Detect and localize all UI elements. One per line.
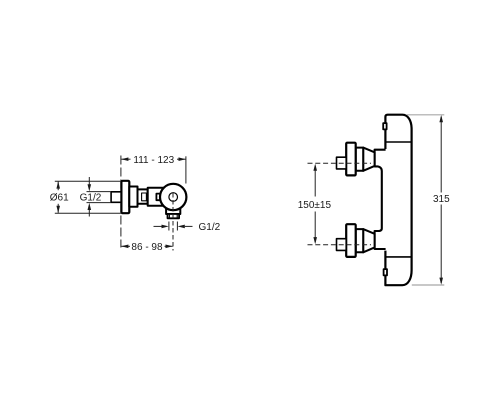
top cap separator line (385, 141, 411, 143)
body left edge and inlet nuts (375, 150, 386, 249)
dim G1/2 extension lines (87, 191, 112, 193)
inlet stub side view (111, 192, 121, 203)
svg-text:G1/2: G1/2 (199, 222, 221, 233)
wall flange (escutcheon) side view (121, 181, 129, 213)
svg-text:111 - 123: 111 - 123 (133, 155, 174, 166)
wall plane dashed line (120, 156, 122, 248)
outlet centerline (172, 193, 174, 251)
bottom inlet block (356, 229, 364, 252)
set screw bump (156, 194, 161, 201)
dim 315 line with arrows (440, 117, 442, 193)
arrow up O61 (56, 181, 60, 188)
svg-text:86 - 98: 86 - 98 (131, 242, 163, 253)
knob circle (160, 184, 186, 210)
bottom cap separator line (385, 256, 411, 258)
outlet collar (166, 209, 180, 214)
svg-text:150±15: 150±15 (298, 200, 332, 211)
notch detail on connector (142, 193, 147, 201)
outlet G1/2 arrows pointing inward (154, 225, 162, 227)
connector section (138, 189, 148, 203)
top inlet block (356, 148, 364, 171)
arrow right of 111-123 (179, 157, 186, 161)
dim 315 gray extension lines (407, 114, 444, 116)
dim line 111-123 (121, 158, 130, 160)
valve body side view (148, 188, 169, 206)
top cap notch (383, 123, 386, 129)
svg-text:315: 315 (433, 194, 450, 205)
outlet thread (168, 214, 180, 218)
front body outline (385, 115, 411, 286)
bottom inlet stub (337, 239, 347, 251)
top inlet taper (363, 148, 374, 171)
knob inner circle (169, 193, 178, 202)
svg-text:G1/2: G1/2 (80, 193, 102, 204)
dim line O61 (57, 182, 59, 191)
top inlet centerline (308, 162, 372, 164)
top inlet stub (337, 157, 347, 169)
arrow down O61 (56, 206, 60, 213)
dim 150+-15 line with arrows (314, 166, 316, 197)
bottom cap notch (384, 269, 387, 275)
outlet G1/2 extension ticks (168, 222, 170, 231)
outlet thread inner lines (168, 214, 170, 218)
escutcheon cone section (129, 187, 137, 207)
bottom inlet centerline (308, 244, 372, 246)
dim 111-123 left extension (top of wall line handled above) (185, 156, 187, 183)
arrow left of 111-123 (121, 157, 128, 161)
top inlet flange (346, 143, 356, 176)
bottom inlet flange (346, 224, 356, 257)
dim 86-98 line with arrows (121, 245, 130, 247)
bottom inlet group (308, 224, 375, 257)
dim O61 extension lines (55, 180, 121, 182)
top inlet group (308, 143, 375, 176)
dim G1/2 outside arrows (88, 177, 90, 185)
svg-text:Ø61: Ø61 (50, 193, 69, 204)
bottom inlet taper (363, 229, 374, 252)
